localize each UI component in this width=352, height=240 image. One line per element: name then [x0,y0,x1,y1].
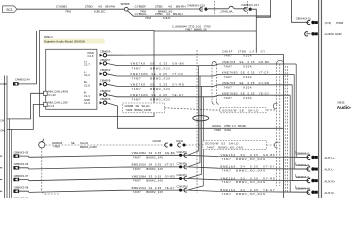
svg-text:74M7 BMW2_345: 74M7 BMW2_345 [133,190,164,194]
svg-text:VME19BA S3 0.35 OY-RD: VME19BA S3 0.35 OY-RD [132,174,175,178]
right dashed shield pair [276,60,283,64]
wire L- (KME7K8D YT-CF) [107,74,295,76]
wire B+ drop to C24UP4 row3 [188,86,202,178]
svg-text:BN-RH: BN-RH [176,5,186,9]
wire to PWR pin of M635 [292,0,309,22]
svg-text:KJB_EC: KJB_EC [94,10,106,14]
svg-text:74M7 K20A: 74M7 K20A [224,75,253,79]
inner dashed shield pair [284,66,286,192]
svg-text:C8M6X9: C8M6X9 [100,97,111,101]
bottom row labels left section [132,151,175,194]
svg-text:Digitales Audio-Modul (DAGM): Digitales Audio-Modul (DAGM) [44,40,85,44]
wire B- drop to C24UP(X row4 [188,97,204,190]
shield label GD90W dashed box right [220,108,266,113]
coiled-wire symbol A7A8_9A [208,6,247,9]
svg-text:KJLN: KJLN [163,16,170,20]
svg-text:KME7K8D SE 0.35 YE-GY: KME7K8D SE 0.35 YE-GY [222,91,269,95]
svg-text:GD140: GD140 [153,139,162,143]
svg-text:74M7 K20A: 74M7 K20A [224,86,253,90]
row6 shield dashed [165,108,277,110]
svg-text:BMW2_K20M: BMW2_K20M [80,145,97,149]
wire from C17 down [252,9,256,53]
svg-text:C1-2: C1-2 [84,73,90,77]
svg-text:BN-RH: BN-RH [173,12,183,16]
svg-text:74M7 BMW2_345: 74M7 BMW2_345 [133,167,164,171]
svg-text:74M: 74M [145,16,151,20]
svg-text:2TBD: 2TBD [85,5,94,9]
connector tag SC1 [3,6,18,13]
wire L+ (VME7K8 GN-BK) [107,63,297,65]
svg-text:SC1: SC1 [6,8,12,12]
svg-text:C2M6X4-2: C2M6X4-2 [296,152,309,156]
svg-text:OW: OW [0,128,5,132]
wire C_WNDN44 from DAGM top [154,30,256,32]
svg-text:74M7 BMW2_345: 74M7 BMW2_345 [133,179,164,183]
svg-text:PWR: PWR [0,82,6,86]
svg-text:C8M6X3-X8: C8M6X3-X8 [14,186,29,190]
GD140 shield dashed wire [46,144,167,146]
svg-text:C1-30: C1-30 [48,93,56,97]
svg-text:74M7 BMW2_5K: 74M7 BMW2_5K [185,27,207,31]
svg-text:74M7 BMW2_K20: 74M7 BMW2_K20 [132,77,171,81]
wire L+ to AUX L+ [296,64,309,157]
left module connector bus [4,76,6,199]
svg-text:74M7 BMW2_NO_DAG: 74M7 BMW2_NO_DAG [222,180,266,184]
svg-text:CY8083: CY8083 [56,5,67,9]
dashed shield line x197 [196,50,198,193]
ground GD90LB symbol [39,142,45,148]
svg-text:C8M6X3: C8M6X3 [100,89,111,93]
dashed pair with top hook [212,62,216,65]
svg-text:74M7 BMW2_345: 74M7 BMW2_345 [133,155,164,159]
svg-text:4.0: 4.0 [168,5,173,9]
svg-text:74M7 BMW2_K20: 74M7 BMW2_K20 [132,66,171,70]
svg-text:C8M6X3-X6: C8M6X3-X6 [14,162,29,166]
wire L- drop to C24UP4 row2 [188,76,201,167]
row1 descent + GND long wire [107,54,284,128]
svg-text:C2M6X4-3: C2M6X4-3 [296,163,309,167]
svg-text:VME7K8 SE 0.35 GN-BK: VME7K8 SE 0.35 GN-BK [131,62,185,66]
svg-text:_A7A8_9A_: _A7A8_9A_ [219,9,235,13]
svg-text:VME16A S3 0.35 OY-RD: VME16A S3 0.35 OY-RD [221,176,276,180]
svg-text:74M7 K20A: 74M7 K20A [224,54,253,58]
svg-text:BME16A S4 0.35 VT-GY: BME16A S4 0.35 VT-GY [221,165,276,169]
CH / OW continuation verticals on bus [9,119,11,198]
svg-text:(X-5) PWR: (X-5) PWR [325,21,345,25]
svg-text:VME7K8 SE 0.35 GN-BK: VME7K8 SE 0.35 GN-BK [222,60,270,64]
svg-text:GD40G 2TB0 1.0 BN-BU: GD40G 2TB0 1.0 BN-BU [212,124,246,128]
wire CY8083 from SC1 to splice [17,8,124,10]
svg-text:VME16A S3 0.35 GN-BK: VME16A S3 0.35 GN-BK [221,153,276,157]
svg-text:MM_CAN_LOW: MM_CAN_LOW [48,101,68,105]
shield label GD90W dashed box (bottom right) [203,141,267,150]
svg-text:74M7 BMW2_NO_DAG: 74M7 BMW2_NO_DAG [222,169,266,173]
svg-text:74M7 BMW2_K20: 74M7 BMW2_K20 [132,98,171,102]
svg-text:C4M6X(X-C17: C4M6X(X-C17 [241,3,259,7]
svg-text:74M7 BMW2_NO_DAG: 74M7 BMW2_NO_DAG [207,145,244,149]
svg-text:C1-7: C1-7 [84,63,90,67]
svg-text:BME19SA S4 0.35 VT-GY: BME19SA S4 0.35 VT-GY [132,163,175,167]
svg-text:KME7K8D SE 0.35 YT-CF: KME7K8D SE 0.35 YT-CF [131,72,184,76]
DAGM outer box [40,31,155,117]
dashed harness boundary (right) [247,1,249,15]
svg-text:C8M6X8: C8M6X8 [100,79,111,83]
wire AUX R- row (BME19SA YE-GY) [19,190,309,192]
svg-text:C2M6X4-(X: C2M6X4-(X [296,186,310,190]
svg-text:C8M6X3-X5: C8M6X3-X5 [14,151,29,155]
svg-text:M635: M635 [338,101,345,105]
AUDIO GND pin terminal [307,33,311,35]
svg-text:GD/90/W S3 SH-LD: GD/90/W S3 SH-LD [205,141,239,145]
svg-text:C8M6X7: C8M6X7 [100,58,111,62]
svg-text:C1-3: C1-3 [84,94,90,98]
svg-text:740M K20A: 740M K20A [214,128,231,132]
wire B+ to AUX R+ [292,85,309,181]
svg-text:C8K6F 2TBD 1.0 GY: C8K6F 2TBD 1.0 GY [222,49,266,53]
inline connector GD40 [178,143,181,147]
inner pin names left column MM_CAN [48,89,68,108]
svg-text:AUDIO GND: AUDIO GND [325,32,343,36]
left edge tick marks [0,156,2,191]
svg-text:CY80EF: CY80EF [135,5,147,9]
svg-text:4.0: 4.0 [98,5,103,9]
splice SP985 [124,7,128,11]
svg-text:MM_CAN_HIGH: MM_CAN_HIGH [48,89,68,93]
svg-text:AUX L-: AUX L- [324,168,334,172]
svg-text:VME7K8 SE 0.35 GY-RD: VME7K8 SE 0.35 GY-RD [222,81,270,85]
wire labels left section [131,62,185,102]
svg-text:74M7 K20A: 74M7 K20A [224,65,253,69]
svg-text:74M7 BMW2_K20: 74M7 BMW2_K20 [132,87,171,91]
PWR pin terminal [307,20,318,24]
svg-text:GD/90/W SE SH-LD: GD/90/W SE SH-LD [222,109,259,113]
svg-text:SE: SE [71,141,75,145]
wire B- (KME7K8D YE-GY) [107,95,291,97]
svg-text:74M7 K20A: 74M7 K20A [224,96,253,100]
svg-text:C8M6X6: C8M6X6 [100,50,111,54]
svg-text:C8M6X3-X7: C8M6X3-X7 [14,174,29,178]
svg-text:VME7K8 SE 0.35 GY-RD: VME7K8 SE 0.35 GY-RD [131,83,185,87]
wire AUX R+ row (VME19BA OY-RD) [19,179,309,181]
cable grommet oval [193,116,209,121]
DAGM inner box [46,49,97,109]
wire labels right section [222,49,270,100]
svg-text:C1-5: C1-5 [48,104,54,108]
svg-text:74M9 BMW2_K20M: 74M9 BMW2_K20M [126,108,152,112]
svg-text:AUX L+: AUX L+ [324,156,335,160]
svg-text:AUX R-: AUX R- [324,191,334,195]
svg-text:CH: CH [0,118,4,122]
svg-text:C2M6X4-4: C2M6X4-4 [296,175,309,179]
svg-text:Audio-: Audio- [337,105,352,110]
bottom row labels right section [221,153,276,196]
svg-text:GD90LB: GD90LB [52,141,63,145]
shield label GD90B dashed box [123,103,165,113]
inner pin names right column [84,51,94,105]
wire row1 PWR (2TBD 1.0 GY) [107,53,284,56]
svg-text:KME7K8D SE 0.35 YE-GY: KME7K8D SE 0.35 YE-GY [131,93,185,97]
svg-text:74M: 74M [65,10,71,14]
wire drop at x270 [270,0,272,17]
svg-text:KME7K8D SE 0.35 YT-CF: KME7K8D SE 0.35 YT-CF [222,71,269,75]
svg-text:BME19SA S4 0.35 YE-GY: BME19SA S4 0.35 YE-GY [132,186,175,190]
svg-text:SP985: SP985 [121,2,130,6]
svg-text:AUX R+: AUX R+ [324,179,335,183]
svg-text:C4M6X2-X4: C4M6X2-X4 [15,77,30,81]
svg-text:C8M6X3-X9: C8M6X3-X9 [14,197,29,198]
wire AUX L- row (BME19SA VT-GY) [19,167,309,169]
wire CY80HG (B) [127,11,270,18]
svg-text:C1-6: C1-6 [88,54,94,58]
svg-text:GD40: GD40 [176,139,184,143]
svg-text:C1-8: C1-8 [84,83,90,87]
svg-text:74M7 BMW2_NO_DAG: 74M7 BMW2_NO_DAG [222,192,266,196]
svg-text:SH-LD: SH-LD [80,141,88,145]
svg-text:C8M6X2: C8M6X2 [100,68,111,72]
svg-text:C1-9: C1-9 [84,101,90,105]
svg-text:C4M6X(X-C15: C4M6X(X-C15 [187,3,205,7]
inline connector GD140 [165,143,168,147]
wire AUX L+ row (VME19BA GN-BK) [19,155,309,157]
wire B+ (VME7K8 GY-RD) [107,84,293,86]
svg-text:74M7 BMW2_NO_DAG: 74M7 BMW2_NO_DAG [222,157,266,161]
svg-text:ZME-N: ZME-N [44,35,53,39]
svg-text:BME16A S4 0.35 YE-GY: BME16A S4 0.35 YE-GY [221,188,276,192]
module M635 right connector bus [319,0,322,198]
svg-text:2TBD: 2TBD [155,5,164,9]
svg-text:GD90B SE SH-LD: GD90B SE SH-LD [125,104,150,108]
wire L- to AUX L- [294,74,309,169]
wire B- to AUX R- [290,95,309,192]
svg-text:BN-RH: BN-RH [106,5,116,9]
wire L+ drop to C24UP4 row1 [188,66,199,156]
svg-text:VME19BA S3 0.35 GN-BK: VME19BA S3 0.35 GN-BK [132,151,175,155]
wire CY80EF (A) [128,8,203,10]
dashed harness boundary (left) [213,1,215,15]
